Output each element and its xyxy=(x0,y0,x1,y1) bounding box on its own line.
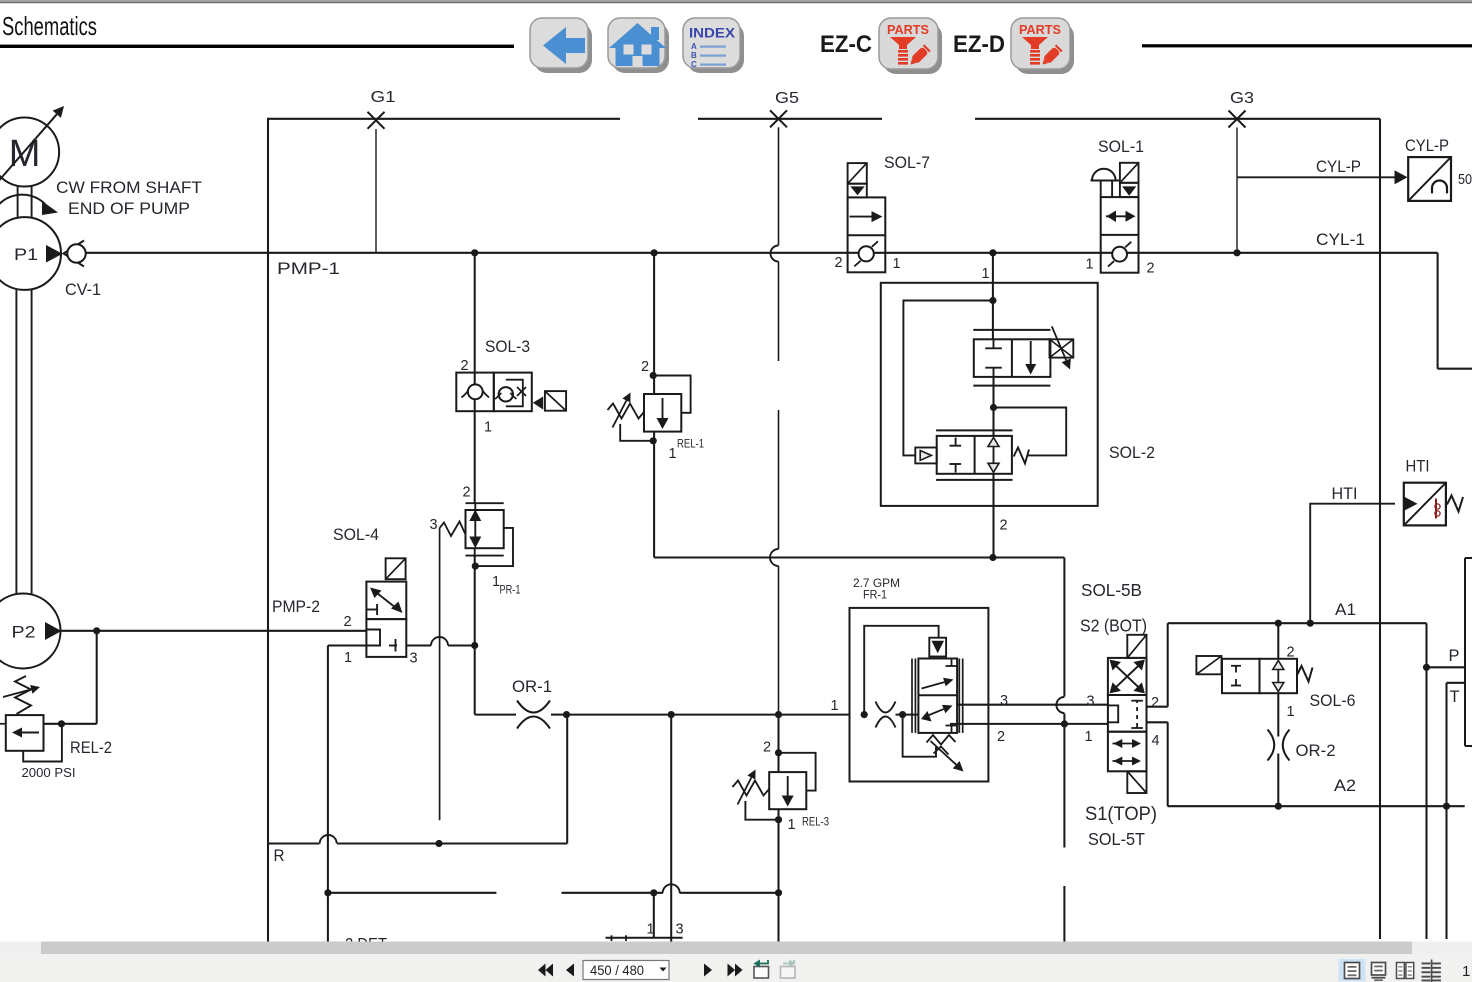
shaft P1 to P2 xyxy=(16,290,31,594)
node SOL-2 pilot tap xyxy=(989,297,996,304)
wire R return line xyxy=(268,715,567,865)
port 1 label SOL-7 xyxy=(893,256,901,272)
svg-text:1: 1 xyxy=(1462,963,1470,980)
port 2 label SOL-1 xyxy=(1147,261,1155,277)
svg-text:1: 1 xyxy=(1085,729,1093,745)
svg-text:3: 3 xyxy=(676,922,684,938)
port 2 label SOL-7 xyxy=(835,255,843,271)
toolbar button home xyxy=(608,18,669,73)
valve SOL-2 pilot stage xyxy=(936,430,1029,480)
page layout icon two pages xyxy=(1397,963,1414,979)
wire SOL-3 branch vertical xyxy=(475,253,516,715)
node main rail to SOL-2 branch xyxy=(989,249,996,256)
wire REL-2 drain loop xyxy=(23,727,62,762)
svg-text:SOL-3: SOL-3 xyxy=(485,338,530,356)
wire FR-1 out port2 xyxy=(950,723,1108,725)
svg-text:EZ-D: EZ-D xyxy=(953,31,1005,58)
wire FR-1 pilot loop top xyxy=(864,626,938,715)
node FR-1 inlet xyxy=(861,711,868,718)
valve SOL-5 directional xyxy=(1108,635,1147,793)
wire G5 drop xyxy=(770,127,779,714)
port 1 label SOL-6 xyxy=(1287,704,1295,720)
pilot symbol SOL-2 xyxy=(915,448,936,464)
zoom level text (clipped) xyxy=(1462,963,1470,980)
net G top dashed rail xyxy=(268,118,1380,120)
svg-text:1: 1 xyxy=(1086,257,1094,273)
node PR-1 drain xyxy=(472,563,479,570)
labels FR-1 flow xyxy=(853,576,900,602)
wire CYL-1 drop right xyxy=(1316,231,1472,369)
check valve CV-1 xyxy=(64,241,102,300)
svg-text:Schematics: Schematics xyxy=(2,11,97,41)
page layout icon continuous xyxy=(1372,963,1386,982)
top window border strip xyxy=(0,0,1472,3)
nav page number input 450 / 480 xyxy=(583,961,669,980)
wire PMP vertical x268 xyxy=(267,118,269,942)
wire SOL-5 port2 up xyxy=(1147,623,1168,707)
port 1 label SOL-1 xyxy=(1086,257,1094,273)
wire SOL-2 port1 xyxy=(992,253,994,339)
node REL-3 top xyxy=(775,749,782,756)
wire center drop x671 xyxy=(670,715,672,942)
node main rail G3 junction xyxy=(1233,249,1240,256)
svg-text:50: 50 xyxy=(1458,171,1472,188)
wire FR-1 out port3 xyxy=(957,704,1108,706)
svg-text:A1: A1 xyxy=(1335,601,1356,619)
svg-text:SOL-6: SOL-6 xyxy=(1310,692,1356,710)
title underline rule left xyxy=(0,45,514,48)
node R line to PR-1 pilot xyxy=(435,840,442,847)
wire OR-2 branch xyxy=(1277,623,1279,806)
svg-text:C: C xyxy=(691,60,697,69)
wire main pressure rail PMP-1 xyxy=(86,253,1438,278)
svg-text:R: R xyxy=(274,847,285,865)
svg-text:A2: A2 xyxy=(1334,777,1356,795)
nav first-page button xyxy=(538,964,553,977)
horizontal scrollbar thumb xyxy=(41,942,1412,955)
wire SOL-2 spring loop right xyxy=(994,408,1067,456)
svg-text:1: 1 xyxy=(647,922,655,938)
svg-text:1: 1 xyxy=(344,650,352,666)
svg-text:2: 2 xyxy=(1147,261,1155,277)
orifice FR-1 xyxy=(876,702,896,728)
svg-text:G5: G5 xyxy=(775,90,799,107)
node A2 T-drop xyxy=(1443,803,1450,810)
node FR-1 sense xyxy=(899,711,906,718)
port 2 label SOL-2 xyxy=(1000,518,1008,534)
wire SOL-4 port1 to tank xyxy=(328,646,367,942)
svg-text:3: 3 xyxy=(410,651,418,667)
wire P2 delivery PMP-2 xyxy=(62,598,367,631)
wire FR-1 main in xyxy=(896,714,919,716)
wire valve feed x654 xyxy=(653,893,655,938)
wire SOL-4 port3 to OR-1 node xyxy=(406,637,474,646)
node center rail G5 xyxy=(775,711,782,718)
svg-text:3: 3 xyxy=(430,517,438,533)
orifice OR-2 xyxy=(1268,730,1336,761)
pump P2 xyxy=(0,594,62,669)
svg-text:P: P xyxy=(1449,647,1460,665)
svg-text:2: 2 xyxy=(997,729,1005,745)
enclosure FR-1 xyxy=(850,608,989,782)
svg-text:SOL-5B: SOL-5B xyxy=(1081,580,1142,600)
port 1 label SOL-2 xyxy=(982,266,990,282)
motor M xyxy=(0,106,64,187)
node P junction xyxy=(1423,664,1430,671)
node G3 xyxy=(1229,90,1255,128)
svg-text:2: 2 xyxy=(835,255,843,271)
wire G3 drop xyxy=(1236,128,1238,253)
label CW FROM SHAFT END OF PUMP xyxy=(56,179,202,218)
wire CYL drop x1380 xyxy=(1379,119,1381,939)
svg-text:1: 1 xyxy=(982,266,990,282)
button EZ-C parts xyxy=(879,18,942,74)
wire branch to REL-2 xyxy=(44,631,97,724)
svg-text:CW FROM SHAFT: CW FROM SHAFT xyxy=(56,179,202,197)
spring REL-2 xyxy=(3,676,40,714)
relief valve REL-3 xyxy=(733,740,830,834)
valve SOL-1 xyxy=(1091,138,1145,273)
svg-text:HTI: HTI xyxy=(1406,458,1430,476)
wire SOL-2 interstage xyxy=(992,377,994,436)
svg-text:2: 2 xyxy=(344,614,352,630)
port 1 label SOL-4 xyxy=(344,650,352,666)
svg-text:2: 2 xyxy=(641,359,649,375)
svg-text:1: 1 xyxy=(831,698,839,714)
svg-text:PMP-2: PMP-2 xyxy=(272,598,320,616)
svg-text:1: 1 xyxy=(788,817,796,833)
svg-text:1: 1 xyxy=(1287,704,1295,720)
nav previous-view icon xyxy=(754,960,769,979)
svg-text:2: 2 xyxy=(463,485,471,501)
svg-text:SOL-5T: SOL-5T xyxy=(1088,829,1145,849)
wire P drop xyxy=(1427,623,1460,939)
svg-text:T: T xyxy=(1450,688,1460,706)
wire T line xyxy=(1447,683,1466,939)
svg-text:1: 1 xyxy=(484,420,492,436)
valve SOL-7 xyxy=(848,154,930,272)
svg-text:G3: G3 xyxy=(1230,90,1254,107)
bottom navigation bar xyxy=(0,954,1472,982)
nav next-view icon (disabled) xyxy=(781,960,796,979)
relief valve REL-2 xyxy=(0,0,112,780)
node bottom rail G5 xyxy=(775,889,782,896)
node SOL-2 interstage xyxy=(990,404,997,411)
gauge CYL-P xyxy=(1405,137,1472,201)
svg-text:INDEX: INDEX xyxy=(689,26,735,41)
svg-text:S2 (BOT): S2 (BOT) xyxy=(1080,616,1147,636)
bottom valve (clipped) xyxy=(606,922,684,942)
node A1 OR-2 xyxy=(1275,620,1282,627)
node REL-3 bottom xyxy=(775,816,782,823)
pressure reducing valve PR-1 xyxy=(430,485,521,597)
svg-text:CYL-1: CYL-1 xyxy=(1316,231,1365,249)
manifold block cut at right edge xyxy=(1465,558,1472,746)
wire G1 drop xyxy=(375,129,377,253)
page title Schematics xyxy=(2,11,97,41)
svg-text:END OF PUMP: END OF PUMP xyxy=(68,200,190,218)
svg-text:2: 2 xyxy=(461,358,469,374)
svg-text:OR-1: OR-1 xyxy=(512,678,552,696)
port labels SOL-5 xyxy=(1085,694,1160,750)
gauge HTI xyxy=(1404,458,1463,526)
wire A1 rail xyxy=(1168,601,1427,623)
svg-text:PR-1: PR-1 xyxy=(500,585,521,597)
labels S1 SOL-5T xyxy=(1085,804,1157,849)
svg-text:REL-1: REL-1 xyxy=(677,439,704,451)
svg-text:2.7 GPM: 2.7 GPM xyxy=(853,576,900,590)
svg-text:2000 PSI: 2000 PSI xyxy=(22,766,76,780)
svg-text:CYL-P: CYL-P xyxy=(1405,137,1449,155)
valve SOL-2 main stage xyxy=(973,326,1073,385)
label EZ-C xyxy=(820,31,872,58)
svg-text:S1(TOP): S1(TOP) xyxy=(1085,804,1157,825)
label 2 DET (clipped) xyxy=(345,936,387,954)
spring PR-1 xyxy=(440,522,466,537)
svg-text:PARTS: PARTS xyxy=(1019,22,1061,37)
svg-text:2: 2 xyxy=(1287,645,1295,661)
svg-text:SOL-2: SOL-2 xyxy=(1109,444,1155,462)
node G5 xyxy=(770,90,799,127)
port 2 label SOL-4 xyxy=(344,614,352,630)
wire FR-1 spring drain xyxy=(903,715,936,757)
port 2 label SOL-3 xyxy=(461,358,469,374)
pilot box FR-1 xyxy=(929,638,946,657)
wire SOL-5 port4 down xyxy=(1147,722,1168,806)
wire G5 into REL-3 xyxy=(777,715,779,820)
valve FR-1 compensator xyxy=(912,659,963,733)
wire SOL-2 port2 xyxy=(992,474,994,558)
node SOL-4 port3 junction xyxy=(471,642,478,649)
svg-text:P1: P1 xyxy=(14,245,38,264)
svg-text:B: B xyxy=(691,51,697,60)
svg-text:1: 1 xyxy=(669,446,677,462)
wire REL-1 branch xyxy=(653,253,655,558)
valve SOL-4 xyxy=(333,526,406,657)
svg-text:EZ-C: EZ-C xyxy=(820,31,872,58)
header rule right xyxy=(1142,44,1472,47)
horizontal scrollbar track xyxy=(0,942,1472,955)
nav last-page button xyxy=(728,964,743,977)
svg-text:PARTS: PARTS xyxy=(887,22,929,37)
port 2 label SOL-6 xyxy=(1287,645,1295,661)
svg-text:G1: G1 xyxy=(371,89,396,106)
wire SOL-5 feed drop xyxy=(1056,558,1064,942)
nav next-page button xyxy=(704,964,712,977)
toolbar button back-arrow xyxy=(530,18,592,73)
node OR-1 out xyxy=(563,711,570,718)
wire bottom rail y892.8 xyxy=(328,884,779,893)
node main rail to REL-1 branch xyxy=(651,249,658,256)
node main rail to SOL-3 branch xyxy=(471,249,478,256)
svg-text:SOL-1: SOL-1 xyxy=(1098,138,1144,156)
svg-text:P2: P2 xyxy=(12,623,36,642)
svg-text:CYL-P: CYL-P xyxy=(1316,158,1361,176)
valve SOL-3 xyxy=(456,338,566,411)
svg-text:3: 3 xyxy=(1087,694,1095,710)
svg-text:OR-2: OR-2 xyxy=(1296,742,1336,760)
svg-text:450 / 480: 450 / 480 xyxy=(590,962,644,978)
svg-text:REL-3: REL-3 xyxy=(802,817,829,829)
node REL-1 top xyxy=(650,372,657,379)
svg-text:2: 2 xyxy=(1000,518,1008,534)
svg-text:2: 2 xyxy=(1151,695,1159,711)
node A1 HTI xyxy=(1307,620,1314,627)
node bottom rail x328 xyxy=(324,889,331,896)
port 1 label SOL-3 xyxy=(484,420,492,436)
label EZ-D xyxy=(953,31,1005,58)
wire OR-1 rail xyxy=(566,714,850,716)
shaft M to P1 xyxy=(18,186,32,218)
svg-text:1: 1 xyxy=(893,256,901,272)
button EZ-D parts xyxy=(1011,18,1074,74)
wire PR-1 pilot drain xyxy=(439,528,441,820)
enclosure SOL-2 xyxy=(881,283,1155,506)
wire SOL-2 pilot loop left xyxy=(903,301,993,456)
orifice OR-1 xyxy=(512,678,566,729)
wire CYL-P line xyxy=(1237,158,1408,184)
page layout icon two pages continuous xyxy=(1422,960,1441,982)
pilot stub REL-2 xyxy=(0,723,6,725)
node mid rail SOL-2 port2 xyxy=(989,554,996,561)
svg-text:REL-2: REL-2 xyxy=(70,739,112,757)
wire REL-3 down xyxy=(777,820,779,942)
wire A2 rail xyxy=(1168,777,1465,806)
svg-text:2: 2 xyxy=(763,740,771,756)
svg-text:PMP-1: PMP-1 xyxy=(277,260,340,278)
wire P line xyxy=(1427,666,1466,668)
page layout icon single page (selected) xyxy=(1339,959,1366,982)
pump P1 xyxy=(0,217,63,290)
svg-text:3: 3 xyxy=(1000,693,1008,709)
svg-text:HTI: HTI xyxy=(1332,485,1358,503)
toolbar button index xyxy=(683,18,744,73)
port 1 label FR-1 xyxy=(831,698,839,714)
svg-text:SOL-7: SOL-7 xyxy=(884,154,930,172)
node REL-1 bottom xyxy=(650,437,657,444)
node SOL-5 feed to port1 xyxy=(1061,720,1068,727)
node center rail x671 xyxy=(668,711,675,718)
rotation arrow CW xyxy=(0,195,58,217)
wire HTI feed xyxy=(1310,485,1395,623)
svg-text:FR-1: FR-1 xyxy=(863,590,887,602)
node P2 to REL-2 branch xyxy=(93,627,100,634)
valve SOL-6 xyxy=(1196,656,1355,710)
spring FR-1 xyxy=(927,735,964,772)
svg-text:CV-1: CV-1 xyxy=(65,281,101,299)
nav previous-page button xyxy=(566,964,574,977)
port labels FR-1 out xyxy=(997,693,1008,745)
svg-text:SOL-4: SOL-4 xyxy=(333,526,379,544)
labels SOL-5B S2 xyxy=(1080,580,1147,636)
node A2 OR-2 xyxy=(1275,803,1282,810)
node REL-2 bypass junction xyxy=(58,720,65,727)
node bottom rail x654 xyxy=(650,889,657,896)
wire mid rail to SOL-2 out xyxy=(654,556,1064,558)
svg-text:A: A xyxy=(691,42,697,51)
relief valve REL-1 xyxy=(608,359,705,462)
port 3 label SOL-4 xyxy=(410,651,418,667)
node G1 xyxy=(368,89,396,129)
svg-text:4: 4 xyxy=(1152,733,1160,749)
